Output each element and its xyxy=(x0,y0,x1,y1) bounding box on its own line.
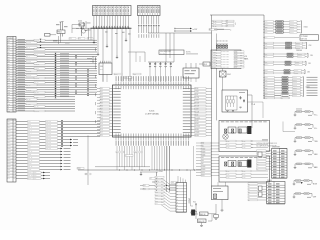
svg-text:SEG1: SEG1 xyxy=(28,124,32,126)
svg-text:1SS133: 1SS133 xyxy=(290,29,294,31)
resistor xyxy=(287,53,293,55)
svg-text:1SS136: 1SS136 xyxy=(293,93,297,95)
svg-text:D202: D202 xyxy=(234,54,237,56)
transistor Q601 xyxy=(191,210,195,216)
svg-text:P03: P03 xyxy=(100,97,103,99)
svg-text:SYS2: SYS2 xyxy=(213,26,216,28)
wire verticals cluster xyxy=(156,172,158,192)
svg-text:FM0: FM0 xyxy=(265,43,268,45)
svg-text:SEG2: SEG2 xyxy=(7,163,10,165)
switch xyxy=(304,180,309,182)
svg-text:5V: 5V xyxy=(226,26,228,28)
wire to key chain xyxy=(282,122,284,132)
CN202 wire rows with labels and diodes xyxy=(16,121,100,123)
wire right xyxy=(208,220,212,222)
svg-text:COM0: COM0 xyxy=(7,145,11,147)
svg-text:LED_18: LED_18 xyxy=(28,175,33,177)
ground xyxy=(170,66,172,67)
resistor xyxy=(276,23,284,25)
svg-text:LED_7: LED_7 xyxy=(28,142,32,144)
svg-text:LC87F1M16A: LC87F1M16A xyxy=(145,113,159,116)
wire to trunk xyxy=(206,126,212,128)
svg-text:P13: P13 xyxy=(8,49,10,51)
CN606 left wires xyxy=(258,183,267,185)
svg-text:IC602: IC602 xyxy=(227,74,231,76)
svg-text:1SS131: 1SS131 xyxy=(296,45,300,47)
CN101 pin wires down to bus xyxy=(93,16,95,29)
resistor xyxy=(297,150,302,152)
svg-text:R303 100: R303 100 xyxy=(46,130,51,132)
svg-text:R622: R622 xyxy=(226,147,229,149)
wire to trunk xyxy=(206,108,212,110)
junction dots on bus xyxy=(118,169,121,172)
switch xyxy=(304,193,309,195)
svg-text:KEY-18: KEY-18 xyxy=(34,82,38,84)
svg-text:LED_4: LED_4 xyxy=(28,133,32,135)
svg-text:KEY3: KEY3 xyxy=(7,130,10,132)
svg-text:FB101: FB101 xyxy=(58,32,63,34)
svg-text:SEG17: SEG17 xyxy=(28,172,32,174)
ground xyxy=(106,44,108,46)
svg-text:CN5: CN5 xyxy=(308,63,311,65)
bus branch wires to U601 top pins xyxy=(93,29,95,40)
ground xyxy=(240,107,242,108)
wire to trunk xyxy=(206,105,212,107)
transformer T602 xyxy=(228,161,236,167)
resistor R101 / capacitor C101 cluster xyxy=(60,22,62,30)
clutter left of crystal xyxy=(87,57,92,60)
svg-text:CN602: CN602 xyxy=(304,27,308,29)
svg-text:KEY0: KEY0 xyxy=(7,121,10,123)
svg-text:R621: R621 xyxy=(226,144,229,146)
wire rows group 5 xyxy=(263,69,266,72)
svg-text:1SS130: 1SS130 xyxy=(294,70,298,72)
svg-text:SEG12: SEG12 xyxy=(195,123,199,125)
svg-text:P12: P12 xyxy=(100,117,103,119)
resistor xyxy=(286,45,292,47)
svg-text:LCD0: LCD0 xyxy=(213,51,216,53)
power bus node under CN101 xyxy=(91,27,131,29)
svg-text:LED_15: LED_15 xyxy=(28,166,33,168)
svg-text:D201: D201 xyxy=(234,51,237,53)
wire jogs near IC left xyxy=(95,48,97,51)
net label boxes above U601 xyxy=(114,73,122,75)
svg-text:DET6: DET6 xyxy=(265,93,268,95)
svg-text:XT: XT xyxy=(150,178,152,180)
svg-text:DISP: DISP xyxy=(313,197,316,199)
wires above IC right xyxy=(165,33,167,62)
wire to trunk xyxy=(206,129,212,131)
transistor Q602 (dark) xyxy=(247,126,251,134)
svg-text:P01: P01 xyxy=(100,91,103,93)
connector bracket CN5 xyxy=(305,61,307,65)
wire y52 branch xyxy=(128,51,145,53)
svg-text:P11: P11 xyxy=(100,114,102,116)
svg-text:R604 4.7K: R604 4.7K xyxy=(198,221,204,223)
wire bus below U601 second xyxy=(95,166,150,168)
resistor xyxy=(297,111,302,113)
connector CN202 (left edge, lower) xyxy=(7,119,16,182)
svg-text:R301 100: R301 100 xyxy=(46,124,51,126)
CN604 top feed wires xyxy=(177,176,179,183)
ground xyxy=(215,219,218,221)
svg-text:CN3: CN3 xyxy=(309,45,312,47)
svg-text:SW10: SW10 xyxy=(201,172,205,174)
wire to trunk xyxy=(206,111,212,113)
svg-text:D203: D203 xyxy=(234,56,237,58)
svg-text:XT601: XT601 xyxy=(159,171,164,173)
svg-text:COM15: COM15 xyxy=(195,132,200,134)
svg-text:SW0: SW0 xyxy=(201,143,204,145)
svg-text:C21: C21 xyxy=(69,38,72,40)
wire rows group 6 (main out) xyxy=(263,76,266,79)
resistor R604 xyxy=(198,219,207,223)
arrow to CN xyxy=(296,182,301,184)
svg-text:P17: P17 xyxy=(8,59,10,61)
wire rows cluster xyxy=(140,185,176,187)
key switch unit BAND xyxy=(295,163,313,165)
ground xyxy=(294,154,296,155)
wire drops from U601 bottom pins xyxy=(116,146,118,170)
resistor R640 xyxy=(258,152,262,157)
svg-text:RES: RES xyxy=(8,61,11,63)
wire xyxy=(195,206,197,219)
svg-text:INT0: INT0 xyxy=(8,92,11,94)
key switch unit SEEK xyxy=(295,150,313,152)
svg-text:KS2: KS2 xyxy=(155,183,158,185)
resistor xyxy=(287,56,293,58)
svg-text:VLCD8: VLCD8 xyxy=(195,111,199,113)
svg-text:KEY-4: KEY-4 xyxy=(34,49,38,51)
wires crystal to U601 xyxy=(102,75,104,83)
wires X102 down to U601 xyxy=(185,78,187,82)
svg-text:CN6: CN6 xyxy=(307,72,310,74)
wires caps row down to U601 xyxy=(149,68,151,82)
svg-text:1SS131: 1SS131 xyxy=(293,80,297,82)
svg-text:CN4: CN4 xyxy=(310,55,313,57)
svg-text:C630: C630 xyxy=(242,171,245,173)
ground xyxy=(116,55,118,57)
svg-text:KS4: KS4 xyxy=(155,189,158,191)
wire to trunk xyxy=(206,134,212,136)
svg-text:(NOTE): (NOTE) xyxy=(186,52,191,54)
svg-text:L2: L2 xyxy=(87,38,89,40)
resistor xyxy=(282,87,288,89)
U601 top pins xyxy=(115,82,117,85)
svg-text:R61: R61 xyxy=(143,185,146,187)
ground xyxy=(97,52,99,54)
wire rows group 2 xyxy=(263,42,266,45)
resistor xyxy=(286,47,292,49)
regulator box bottom xyxy=(212,186,229,200)
svg-text:P02: P02 xyxy=(100,94,103,96)
svg-text:PWM4: PWM4 xyxy=(201,154,205,156)
svg-text:SEG14: SEG14 xyxy=(28,163,32,165)
DC/DC converter block B xyxy=(219,156,270,182)
svg-text:LCD1: LCD1 xyxy=(213,54,216,56)
wire trunk right vertical 2 xyxy=(216,44,218,120)
svg-text:1SS131: 1SS131 xyxy=(290,24,294,26)
svg-text:1SS137: 1SS137 xyxy=(293,95,297,97)
svg-text:PWM9: PWM9 xyxy=(201,169,205,171)
svg-text:FB7: FB7 xyxy=(201,163,204,165)
svg-text:1SS131: 1SS131 xyxy=(295,64,299,66)
svg-text:1SS134: 1SS134 xyxy=(293,87,297,89)
svg-text:C1: C1 xyxy=(79,24,81,26)
svg-text:P10: P10 xyxy=(8,42,10,44)
svg-text:P15: P15 xyxy=(8,54,10,56)
svg-text:KEY-6: KEY-6 xyxy=(34,54,38,56)
wire to trunk xyxy=(206,123,212,125)
svg-text:TUN-1: TUN-1 xyxy=(265,64,269,66)
resistor xyxy=(297,137,302,139)
wire pair to CN106 xyxy=(175,28,190,30)
svg-text:FB5: FB5 xyxy=(201,157,204,159)
U601 bottom pins xyxy=(115,137,117,140)
svg-text:COM4: COM4 xyxy=(195,100,199,102)
LCD module connector block xyxy=(211,50,241,69)
svg-text:KIN11: KIN11 xyxy=(28,154,32,156)
svg-text:PWM3: PWM3 xyxy=(201,151,205,153)
DC/DC converter block A xyxy=(219,120,270,151)
svg-text:1SS132: 1SS132 xyxy=(293,82,297,84)
key switch unit MODE xyxy=(294,180,312,182)
svg-text:SEG1: SEG1 xyxy=(7,160,10,162)
key switch unit DISP xyxy=(294,193,312,195)
U601 bottom pin labels (rotated) xyxy=(115,141,118,146)
svg-text:KIN8: KIN8 xyxy=(28,145,31,147)
resistor xyxy=(282,92,288,94)
connector CN604 (bottom center) xyxy=(176,183,187,213)
svg-text:VCC: VCC xyxy=(193,202,196,204)
svg-text:SEG3: SEG3 xyxy=(7,166,10,168)
svg-text:FB6: FB6 xyxy=(201,160,204,162)
wires subcircuit to rows xyxy=(58,36,60,44)
svg-text:VSS1: VSS1 xyxy=(77,168,81,170)
svg-text:SEEK: SEEK xyxy=(314,154,318,156)
svg-text:COM7: COM7 xyxy=(195,109,199,111)
svg-text:P06: P06 xyxy=(100,106,103,108)
ground xyxy=(125,38,127,40)
wire to trunk xyxy=(206,93,212,95)
svg-text:P16: P16 xyxy=(100,129,103,131)
audio amp block IC604 xyxy=(222,90,248,112)
svg-text:KEY4: KEY4 xyxy=(7,133,10,135)
svg-text:KIN6: KIN6 xyxy=(28,139,31,141)
svg-text:P10: P10 xyxy=(100,111,103,113)
wire bus below U601 xyxy=(78,169,212,171)
svg-text:VLCD6: VLCD6 xyxy=(195,106,199,108)
svg-text:KS6: KS6 xyxy=(155,194,158,196)
connector bracket CN605 xyxy=(303,77,305,97)
svg-text:SEG9: SEG9 xyxy=(195,114,199,116)
svg-text:CLK: CLK xyxy=(7,175,9,177)
svg-text:KS9: KS9 xyxy=(155,203,158,205)
resistor xyxy=(296,193,301,195)
svg-text:LED_12: LED_12 xyxy=(28,157,33,159)
svg-text:VCC: VCC xyxy=(8,40,11,42)
svg-text:TO TUNER: TO TUNER xyxy=(301,36,308,38)
svg-text:): ) xyxy=(235,22,236,26)
svg-text:KS1: KS1 xyxy=(155,180,158,182)
svg-text:LCD4: LCD4 xyxy=(213,62,216,64)
svg-text:GND: GND xyxy=(265,26,268,28)
bypass capacitors C103-C107 xyxy=(148,61,174,63)
svg-text:P15: P15 xyxy=(100,126,103,128)
ESD diodes D201 D202 xyxy=(40,39,42,42)
capacitor C607 xyxy=(243,99,245,100)
svg-text:SW_3: SW_3 xyxy=(26,47,30,49)
resistor R102 xyxy=(203,62,210,66)
svg-text:FB1: FB1 xyxy=(201,145,204,147)
switch xyxy=(305,111,310,113)
wire to trunk xyxy=(206,99,212,101)
key switch unit VOL- xyxy=(295,124,313,126)
resistor xyxy=(276,26,284,28)
CN201 wire rows with net labels and ESD diodes xyxy=(16,39,97,41)
svg-text:R304 100: R304 100 xyxy=(46,133,51,135)
wire to trunk xyxy=(206,114,212,116)
connector bracket CN6 xyxy=(304,70,306,74)
resistor xyxy=(297,163,302,165)
svg-text:FM0: FM0 xyxy=(265,62,268,64)
svg-text:P14: P14 xyxy=(100,123,103,125)
svg-text:P21: P21 xyxy=(8,66,10,68)
wire bend right xyxy=(248,101,264,103)
ground xyxy=(221,210,224,212)
svg-text:1SS133x3: 1SS133x3 xyxy=(296,50,302,52)
svg-text:SCK: SCK xyxy=(8,96,11,98)
capacitor array C201-C204 xyxy=(216,43,228,45)
svg-text:KEY6: KEY6 xyxy=(7,139,10,141)
resistor xyxy=(282,82,288,84)
U601 top pin labels (rotated) xyxy=(115,76,118,81)
transistor Q101 xyxy=(81,29,85,33)
resistor R642 xyxy=(259,192,263,197)
svg-text:COM1: COM1 xyxy=(195,91,199,93)
service test point labels xyxy=(296,108,302,111)
svg-text:R630: R630 xyxy=(226,171,229,173)
U601 top pin numbers xyxy=(115,86,118,89)
svg-text:C621: C621 xyxy=(242,144,245,146)
svg-text:VDD: VDD xyxy=(133,74,136,76)
svg-text:1SS132: 1SS132 xyxy=(296,48,300,50)
U601 left pins with net label boxes xyxy=(110,88,113,90)
svg-text:FM2: FM2 xyxy=(265,48,268,50)
switch xyxy=(305,163,310,165)
extra annotations right xyxy=(307,76,318,79)
CN102 pin wires down xyxy=(138,16,140,25)
svg-text:DET0: DET0 xyxy=(265,77,268,79)
svg-text:P12: P12 xyxy=(8,47,10,49)
svg-text:R632: R632 xyxy=(226,177,229,179)
resistor xyxy=(297,124,302,126)
svg-text:GND: GND xyxy=(265,32,268,34)
svg-text:5V: 5V xyxy=(226,23,228,25)
svg-text:P14: P14 xyxy=(8,52,10,54)
svg-text:C317: C317 xyxy=(33,172,36,174)
ground xyxy=(294,167,296,168)
svg-text:SO: SO xyxy=(8,101,10,103)
resistor xyxy=(296,180,301,182)
capacitor C102 xyxy=(79,23,85,26)
svg-text:C61: C61 xyxy=(85,174,88,176)
svg-text:C631: C631 xyxy=(242,174,245,176)
svg-text:P16: P16 xyxy=(8,56,10,58)
single note row xyxy=(263,36,266,39)
svg-text:R62: R62 xyxy=(143,189,146,191)
wire verticals to bottom circuits xyxy=(190,170,192,206)
CN603 left wires xyxy=(262,150,272,152)
resistor xyxy=(285,64,291,66)
svg-text:KS8: KS8 xyxy=(155,200,158,202)
connector bracket CN3 xyxy=(306,42,308,49)
wire to trunk xyxy=(206,96,212,98)
svg-text:KS7: KS7 xyxy=(155,197,158,199)
svg-text:VLCD3: VLCD3 xyxy=(195,97,199,99)
switch xyxy=(305,124,310,126)
svg-text:SEG11: SEG11 xyxy=(195,120,199,122)
resistor xyxy=(282,95,288,97)
block A lower rows xyxy=(220,140,268,142)
svg-text:1SS130: 1SS130 xyxy=(298,54,302,56)
U601 right pins with net label boxes xyxy=(191,88,195,90)
svg-text:LCD2: LCD2 xyxy=(213,56,216,58)
svg-text:1SS132: 1SS132 xyxy=(290,26,294,28)
svg-text:SYS0: SYS0 xyxy=(213,21,216,23)
svg-text:R305 100: R305 100 xyxy=(46,136,51,138)
wire to trunk xyxy=(206,120,212,122)
svg-text:MODE: MODE xyxy=(313,184,317,186)
resistor xyxy=(282,77,288,79)
svg-text:1SS131: 1SS131 xyxy=(294,73,298,75)
svg-text:COM3: COM3 xyxy=(7,154,11,156)
wire to trunk xyxy=(206,90,212,92)
ground xyxy=(294,128,296,129)
svg-text:SW11: SW11 xyxy=(201,175,205,177)
note text xyxy=(262,139,268,140)
resistor xyxy=(284,72,290,74)
key switch unit VOL+ xyxy=(295,111,313,113)
wire to trunk xyxy=(206,102,212,104)
resistor xyxy=(284,70,290,72)
mid-drop net labels xyxy=(116,151,124,153)
ground xyxy=(140,172,142,174)
svg-text:TUNE: TUNE xyxy=(314,141,318,143)
svg-text:R302 100: R302 100 xyxy=(46,127,51,129)
connector bracket CN602 xyxy=(301,21,303,33)
wire net VDD33 xyxy=(148,32,212,34)
resistor xyxy=(286,42,292,44)
svg-text:C620: C620 xyxy=(242,141,245,143)
resistor R603 xyxy=(200,212,209,216)
extra labels row 1 xyxy=(69,38,76,40)
svg-text:KIN16: KIN16 xyxy=(28,169,32,171)
svg-text:KIN5: KIN5 xyxy=(28,136,31,138)
svg-text:VSS: VSS xyxy=(7,172,10,174)
svg-text:VCC: VCC xyxy=(8,111,11,113)
microcontroller U601 LC87F body xyxy=(113,85,192,137)
svg-text:KS5: KS5 xyxy=(155,191,158,193)
wire bus to left circuit xyxy=(72,27,91,29)
svg-text:CN604: CN604 xyxy=(188,198,190,203)
capacitor C605 xyxy=(214,215,219,218)
svg-text:SEG16: SEG16 xyxy=(195,135,199,137)
wire down to ground xyxy=(221,200,223,210)
connector CN201 (left edge, upper) xyxy=(7,37,16,113)
transistor Q603 (dark) xyxy=(247,160,251,168)
svg-text:SEG14: SEG14 xyxy=(195,129,199,131)
